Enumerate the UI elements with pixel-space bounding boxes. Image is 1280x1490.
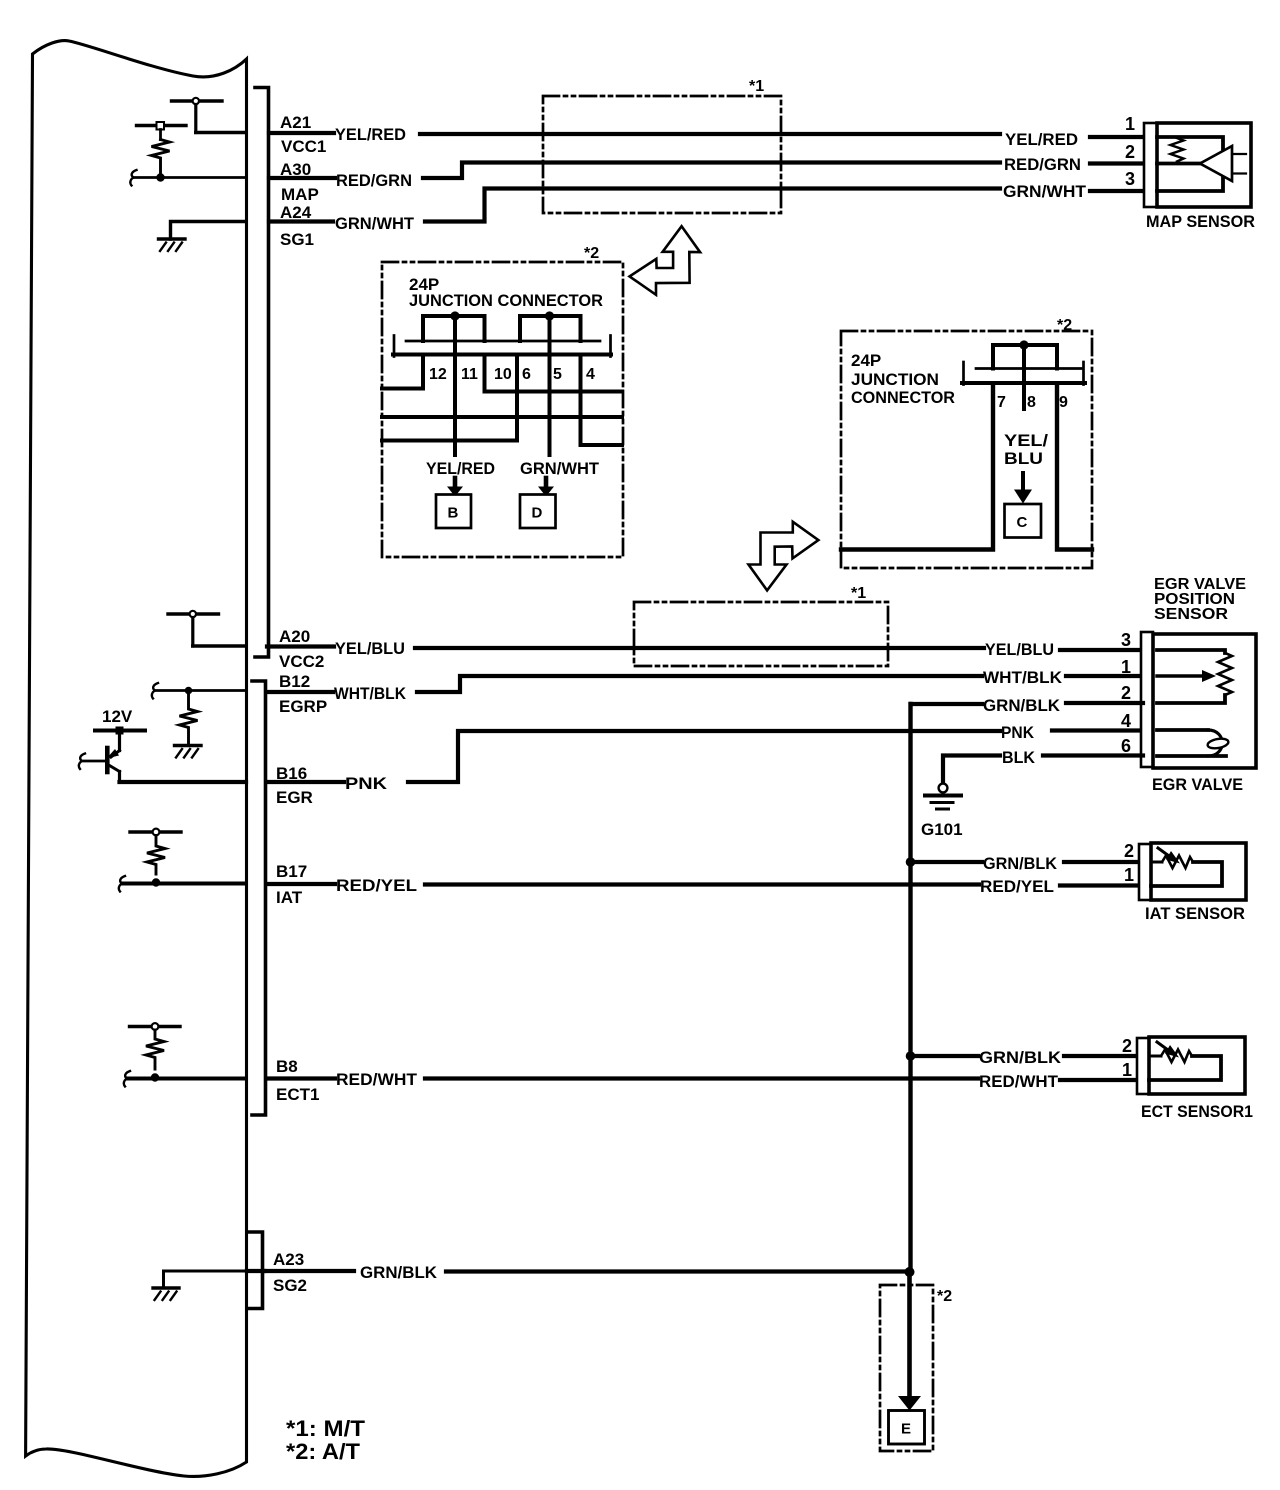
through wire across box [382,415,622,419]
wire GRN/BLK (to IAT sensor pin 2) [911,860,1142,864]
svg-text:YEL/RED: YEL/RED [1005,130,1078,149]
resistor (EGRP pull) [180,691,198,745]
A23 internal ground wire [164,1271,355,1287]
svg-text:JUNCTION: JUNCTION [851,370,939,389]
svg-text:G101: G101 [921,820,963,839]
bent arrow pointer (right/down, above middle *1 box) [749,522,819,591]
junction dot pin 8 [1019,340,1028,349]
svg-text:A23: A23 [273,1250,304,1269]
junction dot pin 5 [545,311,554,320]
variant box *2 (A/T) around connector E [880,1285,933,1451]
MAP sensor box [1157,123,1251,207]
ground (EGRP resistor, hatched) [175,746,202,758]
svg-text:PNK: PNK [1001,723,1035,742]
connector box C [1005,504,1042,538]
svg-text:RED/GRN: RED/GRN [1004,155,1081,174]
junction connector body (right box) [962,362,1085,385]
ECT thermistor element [1149,1042,1221,1080]
ground SG2 (hatched) [153,1288,179,1300]
YEL/RED wire through pin 11 [453,316,457,455]
connector box B [436,495,471,529]
svg-text:YEL/RED: YEL/RED [335,125,406,144]
24P JUNCTION CONNECTOR caption (right box) [851,351,955,407]
junction dot pin 11 [450,311,459,320]
svg-text:5: 5 [553,366,562,383]
svg-text:C: C [1017,514,1028,531]
IAT thermistor element [1151,848,1222,886]
pin B12/EGRP labels [279,672,327,716]
pin numbers 12 11 10 6 5 4 [429,366,595,383]
resistor (VCC1 pull-up) [152,140,170,175]
pin A24/SG1 labels [280,203,314,249]
svg-text:RED/YEL: RED/YEL [336,876,417,895]
wire GRN/BLK (A23 to sensor ground net) [247,1269,906,1274]
svg-text:9: 9 [1059,394,1068,411]
arrow to connector D [538,478,554,497]
arrow to connector B [447,478,463,497]
svg-text:*1: M/T: *1: M/T [286,1416,366,1441]
svg-text:B: B [448,505,459,522]
B17 internal wire with curl [119,876,246,892]
pin B16/EGR labels [276,764,313,807]
IAT sensor connector bar [1139,844,1151,900]
wire PNK (B16 to EGR valve pin 4) [267,731,1143,783]
24P JUNCTION CONNECTOR caption (left box) [409,275,603,310]
svg-text:IAT SENSOR: IAT SENSOR [1145,904,1245,923]
svg-text:PNK: PNK [345,774,388,793]
EGR valve connector bar [1141,632,1153,767]
svg-text:4: 4 [1121,711,1131,731]
svg-text:GRN/BLK: GRN/BLK [983,696,1061,715]
wire RED/GRN (A30 to MAP sensor pin 2) [269,163,1146,179]
ECT sensor pin numbers [1122,1036,1132,1080]
svg-text:A24: A24 [280,203,312,222]
pin A23/SG2 labels [273,1250,307,1295]
ground G101 (earth) [925,784,961,809]
VCC1 internal supply bar with node [172,98,247,133]
svg-text:IAT: IAT [276,888,303,907]
svg-text:YEL/BLU: YEL/BLU [335,639,405,658]
wire RED/YEL (B17 to IAT sensor pin 1) [267,884,1141,886]
pin 8 YEL/BLU stub [1022,345,1026,409]
svg-text:GRN/WHT: GRN/WHT [335,214,415,233]
svg-text:2: 2 [1122,1036,1132,1056]
variant box *1 (M/T) around YEL/BLU wire [634,602,888,666]
svg-text:VCC1: VCC1 [281,137,326,156]
svg-text:10: 10 [494,366,512,383]
A30 internal wire with curl end [130,170,246,186]
svg-text:YEL/BLU: YEL/BLU [985,640,1054,659]
svg-text:*2: A/T: *2: A/T [286,1439,361,1464]
svg-text:WHT/BLK: WHT/BLK [334,684,407,703]
wire GRN/BLK (EGR valve pin 2 to ground net vertical) [911,703,1143,704]
24P junction connector box *2 (A/T, right) dash border [841,331,1092,568]
MAP sensor internal wiring [1157,137,1223,191]
svg-text:CONNECTOR: CONNECTOR [851,388,955,407]
bridge jumper pins 12-11-10 [423,316,485,341]
svg-text:3: 3 [1125,169,1135,189]
svg-text:MAP SENSOR: MAP SENSOR [1146,212,1255,231]
ECM connector pin bracket segment 1 (pins A21..VCC2) [255,88,269,658]
svg-text:GRN/BLK: GRN/BLK [979,1048,1062,1067]
svg-text:1: 1 [1125,114,1135,134]
svg-text:MAP: MAP [281,185,319,204]
svg-text:*1: *1 [749,78,764,95]
svg-text:6: 6 [1121,736,1131,756]
junction dot GRN/BLK to ECT [906,1051,916,1061]
svg-text:YEL/: YEL/ [1004,431,1048,450]
connector box D [520,495,556,529]
bent arrow pointer (up/left, between junction connector and *1 box) [630,226,701,295]
VCC1 pull-up branch bar with square node [137,122,187,140]
VCC2 internal supply bar with node [168,611,246,646]
transistor Q (EGR driver, PNP) [107,734,120,782]
EGR position sensor potentiometer wiring [1157,650,1232,703]
pin 12 stem and wire to left edge [382,356,423,389]
pin A20/VCC2 labels [279,627,324,671]
svg-text:A20: A20 [279,627,310,646]
node dot on B8 wire [151,1073,159,1081]
svg-text:*2: *2 [937,1288,952,1305]
svg-text:A21: A21 [280,113,311,132]
B8 internal pull-up: bar, node circle [130,1023,181,1030]
svg-text:6: 6 [522,366,531,383]
bridge jumper pins 7-8-9 [993,345,1057,369]
svg-text:RED/GRN: RED/GRN [336,171,412,190]
svg-text:12: 12 [429,366,447,383]
ECM connector pin bracket segment 2 (pins B12..ECT1) [252,681,266,1115]
wire RED/WHT (B8 to ECT sensor pin 1) [267,1079,1139,1081]
svg-text:JUNCTION CONNECTOR: JUNCTION CONNECTOR [409,291,603,310]
B12 internal wire with curl and node [152,683,246,699]
svg-text:*1: *1 [851,585,866,602]
resistor (IAT pull-up) [147,836,165,875]
EGR VALVE POSITION SENSOR caption [1154,576,1246,623]
transistor base wire with curl [79,754,105,770]
node dot on B17 wire [152,878,160,886]
svg-text:*2: *2 [1057,317,1072,334]
svg-text:SENSOR: SENSOR [1154,606,1228,623]
pin B8/ECT1 labels [276,1057,319,1104]
arrow wire to connector E [898,1272,921,1411]
svg-text:EGRP: EGRP [279,697,327,716]
svg-text:EGR VALVE: EGR VALVE [1152,775,1243,794]
wire label YEL/BLU (junction box) [1004,431,1048,468]
12V supply bar with square node [95,707,145,735]
svg-text:*2: *2 [584,245,599,262]
svg-text:RED/WHT: RED/WHT [336,1070,418,1089]
SG1 internal ground wire [171,222,247,240]
wire GRN/BLK (to ECT sensor pin 2) [911,1054,1140,1058]
svg-text:BLK: BLK [1002,748,1036,767]
svg-text:1: 1 [1122,1060,1132,1080]
svg-text:12V: 12V [102,707,133,726]
svg-text:WHT/BLK: WHT/BLK [983,668,1063,687]
B16 internal wire [120,780,247,784]
resistor inside MAP sensor [1171,138,1184,162]
bridge jumper pins 6-5-4 [520,316,581,341]
pin 6 stem and wire to left edge [382,356,517,441]
svg-text:D: D [532,505,543,522]
svg-text:2: 2 [1125,142,1135,162]
svg-text:B12: B12 [279,672,310,691]
svg-text:YEL/RED: YEL/RED [426,459,495,478]
IAT sensor pin numbers [1124,841,1134,885]
svg-text:B8: B8 [276,1057,298,1076]
MAP sensor connector bar [1144,123,1157,207]
pin A21/VCC1 labels [280,113,326,156]
EGR valve box [1153,634,1256,768]
pin 7 stem and wire to left edge [841,384,993,550]
svg-text:2: 2 [1121,683,1131,703]
ECT sensor box [1149,1037,1245,1094]
svg-text:ECT SENSOR1: ECT SENSOR1 [1141,1102,1253,1121]
op-amp output stubs [1232,154,1246,174]
wire YEL/RED (A21 to MAP sensor pin 1) [269,133,1146,137]
svg-text:BLU: BLU [1004,449,1043,468]
svg-text:11: 11 [461,366,478,383]
GRN/BLK sensor-ground vertical wire [908,704,912,1272]
svg-text:1: 1 [1124,865,1134,885]
svg-text:GRN/WHT: GRN/WHT [1003,182,1087,201]
svg-text:RED/WHT: RED/WHT [979,1072,1059,1091]
resistor (ECT pull-up) [146,1030,164,1069]
pin 10 stem and wire to right edge [485,356,623,392]
B17 internal pull-up: bar, node circle [130,829,181,836]
junction dot at E branch [905,1267,915,1277]
B8 internal wire with curl [124,1071,246,1087]
svg-text:GRN/WHT: GRN/WHT [520,459,600,478]
svg-text:SG2: SG2 [273,1276,307,1295]
wire GRN/WHT (A24 to MAP sensor pin 3) [269,189,1146,222]
EGR valve solenoid coil [1157,730,1229,756]
svg-text:SG1: SG1 [280,230,314,249]
pin 9 stem and wire to right edge [1057,384,1092,550]
MAP sensor pin numbers [1125,114,1135,189]
node dot on A30 internal wire [156,173,164,181]
pin 4 stem and wire to right edge [581,356,623,445]
svg-text:8: 8 [1027,394,1036,411]
junction connector body (left box) [393,336,611,357]
svg-text:3: 3 [1121,630,1131,650]
svg-text:ECT1: ECT1 [276,1085,319,1104]
svg-text:4: 4 [586,366,595,383]
24P junction connector box *2 (A/T, left) dash border [382,262,623,557]
wire WHT/BLK (B12 to EGR valve position sensor pin 1) [267,676,1143,692]
pin numbers 7 8 9 [997,394,1068,411]
op-amp triangle inside MAP sensor [1200,146,1232,181]
svg-text:1: 1 [1121,657,1131,677]
pin A30/MAP labels [280,160,319,204]
svg-text:GRN/BLK: GRN/BLK [360,1263,438,1282]
ECT sensor connector bar [1137,1038,1149,1094]
wire YEL/BLU (A20 to EGR valve position sensor pin 3) [267,647,1143,651]
svg-text:2: 2 [1124,841,1134,861]
svg-text:B17: B17 [276,862,307,881]
svg-text:EGR: EGR [276,788,313,807]
svg-text:24P: 24P [851,351,881,370]
svg-text:RED/YEL: RED/YEL [980,877,1054,896]
IAT sensor box [1151,843,1246,900]
ECM body outline (wavy-edged module) [26,41,247,1477]
connector box E [889,1411,925,1445]
wire BLK (EGR valve pin 6 to G101) [943,756,1143,784]
svg-text:VCC2: VCC2 [279,652,324,671]
variant box *1 (M/T) around MAP wires [543,96,781,213]
ECM connector pin bracket segment 3 (pins A23/SG2) [249,1232,263,1309]
svg-text:E: E [901,1421,911,1438]
GRN/WHT wire through pin 5 [548,316,552,455]
junction dot GRN/BLK to IAT [906,857,916,867]
potentiometer wiper arrow (pin 1) [1157,670,1216,682]
svg-text:7: 7 [997,394,1006,411]
ground SG1 (hatched) [159,239,186,251]
EGR valve pin numbers 3 1 2 4 6 [1121,630,1131,756]
arrow to connector C [1014,473,1032,504]
pin B17/IAT labels [276,862,307,907]
svg-text:GRN/BLK: GRN/BLK [983,854,1058,873]
